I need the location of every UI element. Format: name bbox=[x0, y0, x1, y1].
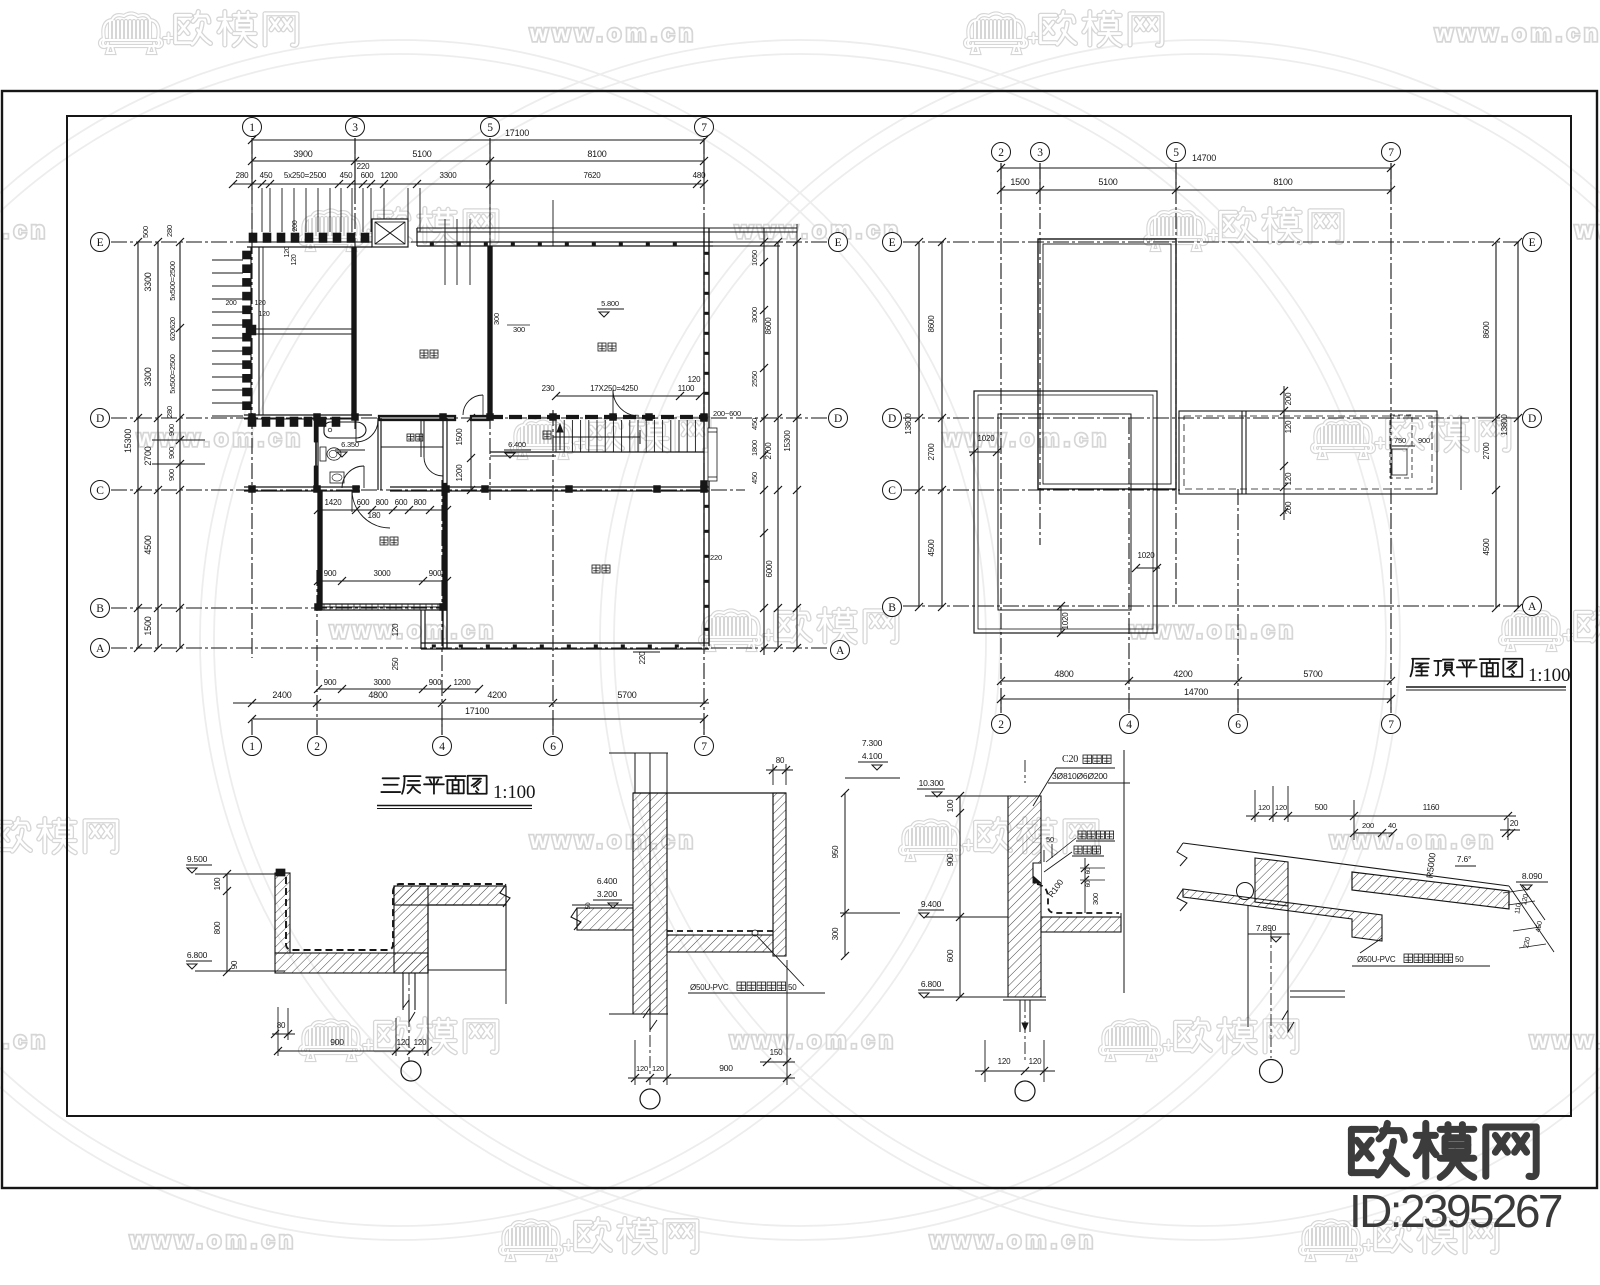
svg-text:www.om.cn: www.om.cn bbox=[942, 425, 1110, 451]
svg-text:180: 180 bbox=[368, 511, 381, 520]
svg-text:120: 120 bbox=[414, 1038, 427, 1047]
svg-text:220: 220 bbox=[638, 651, 647, 664]
svg-text:5: 5 bbox=[487, 122, 493, 134]
stairs bbox=[490, 451, 704, 453]
washbasin bbox=[330, 472, 344, 483]
svg-text:2: 2 bbox=[998, 719, 1004, 731]
svg-text:120: 120 bbox=[652, 1064, 664, 1073]
detail2 left slab bbox=[577, 908, 633, 930]
svg-text:17100: 17100 bbox=[505, 128, 529, 138]
svg-text:E: E bbox=[1529, 237, 1536, 249]
svg-text:600: 600 bbox=[395, 498, 408, 507]
svg-text:900: 900 bbox=[167, 447, 176, 459]
detail2 80 dim bbox=[772, 764, 774, 785]
left row axis circles E D C B A bbox=[91, 233, 110, 252]
svg-text:C20: C20 bbox=[1062, 754, 1078, 765]
roof rect R1 bbox=[1038, 239, 1176, 489]
svg-text:10.300: 10.300 bbox=[919, 778, 944, 788]
svg-text:2: 2 bbox=[998, 147, 1004, 159]
svg-text:6.400: 6.400 bbox=[508, 440, 526, 449]
svg-text:7: 7 bbox=[701, 741, 707, 753]
detail4 sloped roof slab bbox=[1183, 843, 1509, 886]
svg-text:120: 120 bbox=[1258, 803, 1270, 812]
svg-text:D: D bbox=[1528, 413, 1536, 425]
svg-text:4500: 4500 bbox=[1482, 538, 1491, 556]
svg-text:www.om.cn: www.om.cn bbox=[1129, 617, 1297, 643]
svg-text:1: 1 bbox=[249, 741, 255, 753]
right side row circles E D A bbox=[829, 233, 848, 252]
svg-text:900: 900 bbox=[167, 424, 176, 436]
detail1 bottom dims bbox=[277, 1007, 279, 1056]
right plan left dim columns bbox=[918, 242, 920, 607]
svg-text:E: E bbox=[97, 237, 104, 249]
svg-text:D: D bbox=[888, 413, 896, 425]
svg-text:1050: 1050 bbox=[750, 250, 759, 266]
right plan bottom dims bbox=[1001, 680, 1391, 682]
detail1 waterproof liner bbox=[286, 877, 504, 950]
svg-text:620620: 620620 bbox=[168, 317, 177, 341]
svg-text:5700: 5700 bbox=[1303, 669, 1322, 679]
detail3 notch + sealant bbox=[1033, 863, 1041, 883]
grid3 wall bbox=[351, 247, 353, 415]
svg-text:D: D bbox=[834, 413, 842, 425]
right wall mullion ticks bbox=[705, 252, 709, 255]
svg-text:3: 3 bbox=[352, 122, 358, 134]
bottom dims left plan bbox=[318, 688, 479, 690]
svg-text:120: 120 bbox=[258, 311, 269, 318]
detail4 right slanted dims bbox=[1509, 886, 1554, 952]
svg-text:6.400: 6.400 bbox=[597, 876, 618, 886]
svg-text:150: 150 bbox=[770, 1048, 783, 1057]
svg-text:450: 450 bbox=[340, 171, 353, 180]
svg-text:www.om.cn: www.om.cn bbox=[529, 827, 697, 853]
svg-text:3300: 3300 bbox=[143, 272, 153, 291]
svg-text:500: 500 bbox=[1315, 803, 1328, 812]
bedroom balcony wall B bbox=[318, 603, 447, 605]
svg-text:5700: 5700 bbox=[617, 690, 636, 700]
bottom axis circles 1 2 4 6 7 bbox=[243, 737, 262, 756]
D row teeth bbox=[248, 417, 256, 427]
svg-text:5: 5 bbox=[1173, 147, 1179, 159]
roof strip right bbox=[1179, 411, 1437, 494]
svg-text:7620: 7620 bbox=[584, 171, 602, 180]
svg-text:600: 600 bbox=[357, 498, 370, 507]
svg-text:1420: 1420 bbox=[325, 498, 343, 507]
svg-text:6: 6 bbox=[1235, 719, 1241, 731]
svg-text:7.890: 7.890 bbox=[1256, 923, 1277, 933]
bathtub bbox=[324, 422, 366, 438]
detail3 slab bbox=[1041, 917, 1121, 932]
svg-text:60: 60 bbox=[1085, 880, 1092, 887]
svg-text:3300: 3300 bbox=[440, 171, 458, 180]
svg-text:14700: 14700 bbox=[1192, 153, 1216, 163]
bath walls bbox=[317, 418, 319, 490]
svg-text:3000: 3000 bbox=[374, 569, 392, 578]
svg-text:13800: 13800 bbox=[904, 413, 913, 435]
svg-text:17100: 17100 bbox=[465, 706, 489, 716]
corridor dims 1500/1200 bbox=[470, 418, 472, 490]
svg-text:120: 120 bbox=[1275, 803, 1287, 812]
svg-text:300: 300 bbox=[831, 927, 840, 940]
svg-text:50: 50 bbox=[788, 983, 797, 992]
svg-text:www.om.cn: www.om.cn bbox=[129, 1227, 297, 1253]
detail3 left dims bbox=[959, 796, 961, 997]
right plan title bbox=[1410, 659, 1428, 677]
svg-text:1:100: 1:100 bbox=[493, 782, 535, 803]
svg-text:1500: 1500 bbox=[143, 616, 153, 635]
left plan top axis circles 1 3 5 7 bbox=[243, 118, 262, 137]
svg-text:4200: 4200 bbox=[1173, 669, 1192, 679]
svg-text:220: 220 bbox=[357, 162, 370, 171]
svg-text:7.6°: 7.6° bbox=[1457, 854, 1471, 864]
right plan row lines bbox=[903, 241, 1520, 243]
svg-text:80: 80 bbox=[776, 756, 785, 765]
svg-text:500: 500 bbox=[141, 226, 150, 238]
E wall mullion ticks bbox=[430, 243, 434, 246]
right wall grid7 bbox=[703, 228, 705, 646]
svg-text:1020: 1020 bbox=[978, 434, 996, 443]
omw logo bottom right bbox=[1351, 1123, 1406, 1175]
svg-text:1100: 1100 bbox=[678, 384, 695, 393]
door arcs bbox=[356, 420, 378, 442]
svg-text:8100: 8100 bbox=[1273, 177, 1292, 187]
svg-text:www.om.cn: www.om.cn bbox=[0, 1027, 49, 1053]
detail3 small dims bbox=[1084, 858, 1086, 913]
study label bbox=[420, 350, 428, 358]
dining label bbox=[598, 343, 606, 351]
svg-text:200: 200 bbox=[1284, 392, 1293, 405]
svg-text:900: 900 bbox=[429, 678, 442, 687]
svg-text:120: 120 bbox=[1284, 472, 1293, 485]
svg-text:4200: 4200 bbox=[487, 690, 506, 700]
svg-text:450: 450 bbox=[750, 472, 759, 484]
svg-text:300: 300 bbox=[1091, 893, 1100, 905]
svg-text:1200: 1200 bbox=[381, 171, 399, 180]
svg-text:E: E bbox=[835, 237, 842, 249]
svg-text:4: 4 bbox=[1126, 719, 1132, 731]
svg-text:2700: 2700 bbox=[1482, 442, 1491, 460]
svg-text:300: 300 bbox=[513, 325, 525, 334]
right plan right circles E D A bbox=[1523, 233, 1542, 252]
svg-text:5x250=2500: 5x250=2500 bbox=[284, 171, 327, 180]
detail1 inner + slab lines bbox=[428, 904, 506, 906]
svg-text:120: 120 bbox=[254, 300, 265, 307]
svg-text:120: 120 bbox=[397, 1038, 410, 1047]
top overhang lines bbox=[417, 227, 797, 229]
svg-text:220: 220 bbox=[710, 553, 722, 562]
svg-text:Ø50U-PVC: Ø50U-PVC bbox=[690, 983, 729, 992]
svg-text:2: 2 bbox=[314, 741, 320, 753]
svg-text:4500: 4500 bbox=[927, 539, 936, 557]
svg-text:www.om.cn: www.om.cn bbox=[329, 617, 497, 643]
svg-text:4800: 4800 bbox=[1054, 669, 1073, 679]
svg-text:4.100: 4.100 bbox=[862, 751, 883, 761]
svg-text:900: 900 bbox=[1418, 436, 1430, 445]
svg-text:15300: 15300 bbox=[783, 430, 792, 452]
svg-text:C: C bbox=[888, 485, 896, 497]
svg-text:www.om.cn: www.om.cn bbox=[1434, 20, 1600, 46]
svg-text:50: 50 bbox=[1455, 955, 1464, 964]
roof rect R3 bbox=[998, 414, 1131, 610]
left serration dim stubs bbox=[212, 259, 243, 261]
svg-text:4800: 4800 bbox=[368, 690, 387, 700]
strip sub-box bbox=[1390, 415, 1412, 478]
svg-text:8600: 8600 bbox=[927, 315, 936, 333]
svg-text:2700: 2700 bbox=[927, 443, 936, 461]
svg-text:15300: 15300 bbox=[123, 429, 133, 453]
svg-text:900: 900 bbox=[719, 1063, 733, 1073]
detail2 right dims bbox=[844, 793, 846, 956]
svg-text:C: C bbox=[96, 485, 104, 497]
detail1 break symbol bbox=[500, 884, 510, 907]
wardrobe label bbox=[407, 434, 414, 441]
window bay on right wall bbox=[708, 428, 717, 481]
svg-text:120: 120 bbox=[291, 254, 298, 265]
svg-text:450: 450 bbox=[750, 418, 759, 430]
stairs dim 17X250=4250 bbox=[556, 395, 700, 397]
D row wall bbox=[244, 414, 372, 416]
svg-text:900: 900 bbox=[324, 569, 337, 578]
bedroom interior dims bbox=[318, 509, 447, 511]
svg-text:6.800: 6.800 bbox=[187, 950, 208, 960]
svg-text:120: 120 bbox=[998, 1057, 1011, 1066]
svg-text:2700: 2700 bbox=[143, 446, 153, 465]
detail4 wall below bbox=[1247, 905, 1249, 1027]
svg-text:www.om.cn: www.om.cn bbox=[734, 217, 902, 243]
detail 2 : shaft section bbox=[609, 752, 668, 754]
svg-text:3900: 3900 bbox=[293, 149, 312, 159]
right-side dim columns of left plan bbox=[763, 228, 765, 655]
svg-text:1800: 1800 bbox=[750, 440, 759, 456]
svg-text:5100: 5100 bbox=[1098, 177, 1117, 187]
study mid wall bbox=[251, 328, 352, 330]
detail2 bottom bbox=[609, 1013, 668, 1015]
svg-text:9.400: 9.400 bbox=[921, 899, 942, 909]
svg-text:100: 100 bbox=[946, 799, 955, 812]
D wall squares bbox=[249, 414, 256, 421]
svg-text:250: 250 bbox=[391, 657, 400, 670]
svg-text:1: 1 bbox=[249, 122, 255, 134]
svg-text:280: 280 bbox=[236, 171, 249, 180]
top dim extension stems bbox=[251, 188, 253, 232]
svg-text:230: 230 bbox=[542, 384, 555, 393]
svg-text:3000: 3000 bbox=[750, 307, 759, 323]
svg-text:200~600: 200~600 bbox=[713, 409, 741, 418]
svg-text:Ø50U-PVC: Ø50U-PVC bbox=[1357, 955, 1396, 964]
vertical grid dash-dot lines bbox=[251, 138, 253, 658]
window box with X bbox=[372, 219, 408, 247]
svg-text:900: 900 bbox=[946, 853, 955, 866]
living room bottom wall (A) bbox=[421, 642, 709, 644]
serrated top wall bbox=[247, 246, 372, 248]
bedroom label bbox=[380, 537, 388, 545]
detail1 circle bbox=[401, 1061, 421, 1081]
row grid dash-dot lines bbox=[111, 241, 828, 243]
svg-text:2400: 2400 bbox=[272, 690, 291, 700]
svg-text:2550: 2550 bbox=[750, 371, 759, 387]
svg-text:280: 280 bbox=[165, 225, 174, 237]
right plan right dim columns bbox=[1495, 242, 1497, 608]
svg-text:ID:2395267: ID:2395267 bbox=[1349, 1185, 1562, 1237]
svg-text:280: 280 bbox=[165, 406, 174, 418]
detail2 interior floor bbox=[667, 935, 773, 952]
svg-text:600: 600 bbox=[946, 949, 955, 962]
right plan top circles 2 3 5 7 bbox=[992, 143, 1011, 162]
serrated left wall bbox=[250, 247, 252, 415]
living label bbox=[592, 565, 600, 573]
svg-text:www.om.cn: www.om.cn bbox=[136, 425, 304, 451]
svg-text:7: 7 bbox=[1388, 719, 1394, 731]
svg-text:7: 7 bbox=[701, 122, 707, 134]
detail 4 : eave section bbox=[1254, 790, 1256, 822]
svg-text:800: 800 bbox=[376, 498, 389, 507]
roof rect R2 bbox=[974, 391, 1157, 633]
grid5 wall bbox=[487, 246, 489, 415]
svg-text:E: E bbox=[889, 237, 896, 249]
svg-text:3000: 3000 bbox=[374, 678, 392, 687]
svg-text:80: 80 bbox=[277, 1021, 286, 1030]
svg-text:900: 900 bbox=[167, 469, 176, 481]
toilet bbox=[320, 447, 326, 461]
svg-text:4: 4 bbox=[439, 741, 445, 753]
detail3 liner bbox=[1037, 884, 1119, 913]
svg-text:1200: 1200 bbox=[454, 678, 472, 687]
svg-text:6.800: 6.800 bbox=[921, 979, 942, 989]
svg-text:7: 7 bbox=[1388, 147, 1394, 159]
background arcs bbox=[0, 40, 1000, 1240]
svg-text:1200: 1200 bbox=[455, 464, 464, 482]
svg-text:6: 6 bbox=[550, 741, 556, 753]
svg-text:5.800: 5.800 bbox=[601, 299, 619, 308]
svg-text:1020: 1020 bbox=[1138, 551, 1156, 560]
svg-text:200: 200 bbox=[225, 300, 236, 307]
svg-text:A: A bbox=[1528, 601, 1537, 613]
D row overhead beam dashed bbox=[490, 415, 704, 419]
svg-text:D: D bbox=[96, 413, 104, 425]
svg-text:300: 300 bbox=[492, 313, 501, 325]
svg-text:750: 750 bbox=[1394, 436, 1406, 445]
watermark tiles bbox=[100, 14, 173, 54]
E row wall (upper) bbox=[417, 241, 713, 243]
svg-text:120: 120 bbox=[1029, 1057, 1042, 1066]
right plan left circles E D C B bbox=[883, 233, 902, 252]
svg-text:3.200: 3.200 bbox=[597, 889, 618, 899]
svg-text:120: 120 bbox=[688, 375, 701, 384]
svg-text:www.om.cn: www.om.cn bbox=[1529, 1027, 1600, 1053]
detail1 bottom stub bbox=[402, 973, 404, 1010]
svg-text:8600: 8600 bbox=[1482, 321, 1491, 339]
svg-text:1500: 1500 bbox=[455, 428, 464, 446]
svg-text:200: 200 bbox=[1362, 821, 1374, 830]
left plan title bbox=[381, 778, 400, 792]
svg-text:3Ø810Ø6Ø200: 3Ø810Ø6Ø200 bbox=[1052, 771, 1108, 781]
svg-text:6000: 6000 bbox=[765, 560, 774, 578]
right plan bottom circles 2 4 6 7 bbox=[992, 715, 1011, 734]
svg-text:www.om.cn: www.om.cn bbox=[0, 217, 49, 243]
stair arrow bbox=[559, 424, 561, 450]
svg-text:20: 20 bbox=[1510, 819, 1519, 828]
svg-text:50: 50 bbox=[585, 902, 592, 909]
svg-text:8.090: 8.090 bbox=[1522, 871, 1543, 881]
right plan vertical grids bbox=[1000, 163, 1002, 713]
svg-text:120: 120 bbox=[1284, 420, 1293, 433]
inner border frame bbox=[67, 116, 1571, 1116]
svg-text:450: 450 bbox=[260, 171, 273, 180]
C row wall bbox=[244, 486, 360, 488]
svg-text:1020: 1020 bbox=[1061, 612, 1070, 630]
svg-text:50: 50 bbox=[1046, 835, 1054, 844]
svg-text:120: 120 bbox=[636, 1064, 648, 1073]
svg-text:200: 200 bbox=[1284, 501, 1293, 514]
svg-text:900: 900 bbox=[330, 1037, 344, 1047]
svg-text:14700: 14700 bbox=[1184, 687, 1208, 697]
svg-text:www.om.cn: www.om.cn bbox=[529, 20, 697, 46]
svg-text:A: A bbox=[836, 645, 845, 657]
detail3 bottom bbox=[1003, 996, 1046, 998]
bedroom walls bbox=[317, 490, 319, 610]
svg-text:8100: 8100 bbox=[587, 149, 606, 159]
svg-text:900: 900 bbox=[324, 678, 337, 687]
left dimension columns bbox=[137, 242, 139, 648]
svg-text:7.300: 7.300 bbox=[862, 738, 883, 748]
svg-text:40: 40 bbox=[1388, 821, 1396, 830]
left plan top dimension lines bbox=[252, 139, 704, 141]
svg-text:600: 600 bbox=[361, 171, 374, 180]
svg-text:13800: 13800 bbox=[1500, 414, 1509, 436]
svg-text:4500: 4500 bbox=[143, 535, 153, 554]
detail3 right boundary bbox=[1123, 750, 1125, 993]
svg-text:2700: 2700 bbox=[764, 442, 773, 460]
svg-text:8600: 8600 bbox=[764, 317, 773, 335]
svg-text:1:100: 1:100 bbox=[1528, 665, 1570, 686]
svg-text:200: 200 bbox=[292, 220, 299, 231]
detail2 pvc label bbox=[752, 930, 758, 936]
svg-text:800: 800 bbox=[414, 498, 427, 507]
svg-text:9.500: 9.500 bbox=[187, 854, 208, 864]
svg-text:A: A bbox=[96, 643, 105, 655]
svg-text:900: 900 bbox=[429, 569, 442, 578]
detail1 hatched walls bbox=[275, 873, 290, 953]
svg-text:www.om.cn: www.om.cn bbox=[729, 1027, 897, 1053]
svg-text:90: 90 bbox=[230, 960, 239, 969]
svg-text:5x500=2500: 5x500=2500 bbox=[168, 354, 177, 394]
svg-text:800: 800 bbox=[213, 921, 222, 934]
A wall mullion ticks bbox=[432, 645, 436, 648]
svg-text:www.om.cn: www.om.cn bbox=[929, 1227, 1097, 1253]
svg-text:120: 120 bbox=[391, 623, 400, 636]
svg-text:3300: 3300 bbox=[143, 367, 153, 386]
detail1 lip square bbox=[276, 869, 285, 876]
C wall squares bbox=[249, 486, 256, 493]
svg-text:100: 100 bbox=[213, 877, 222, 890]
svg-text:1500: 1500 bbox=[1010, 177, 1029, 187]
svg-text:3: 3 bbox=[1037, 147, 1043, 159]
svg-text:5100: 5100 bbox=[412, 149, 431, 159]
svg-text:1160: 1160 bbox=[1423, 803, 1440, 812]
svg-text:17X250=4250: 17X250=4250 bbox=[590, 384, 639, 393]
svg-text:B: B bbox=[96, 603, 104, 615]
svg-text:120: 120 bbox=[284, 246, 291, 257]
svg-text:B: B bbox=[888, 602, 896, 614]
svg-text:950: 950 bbox=[831, 845, 840, 858]
svg-text:5x500=2500: 5x500=2500 bbox=[168, 261, 177, 301]
